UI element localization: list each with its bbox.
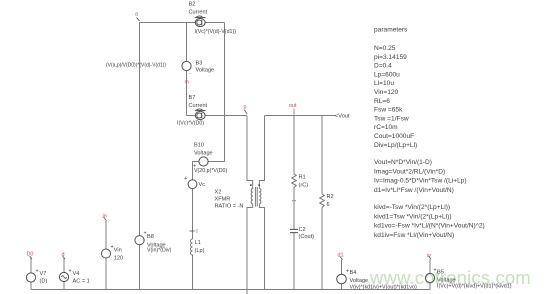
voltage source B8: [135, 236, 144, 245]
svg-text:parameters: parameters: [374, 27, 408, 34]
wire transformer secondary bottom to ground bus: [259, 204, 264, 289]
svg-text:D=0.4: D=0.4: [374, 63, 392, 70]
svg-text:Fsw =65k: Fsw =65k: [374, 107, 403, 114]
svg-text:Voltage: Voltage: [437, 278, 456, 284]
svg-text:out: out: [289, 103, 297, 109]
node iv tick: [429, 256, 432, 259]
node in tick: [104, 217, 107, 221]
wire B2 right vertical down to B10: [208, 23, 225, 162]
voltage source V7: [26, 273, 35, 282]
voltage source Vc: [188, 180, 197, 189]
svg-text:V4: V4: [73, 271, 80, 277]
wire out row to Vout label: [265, 115, 337, 117]
voltage source B4: [337, 274, 347, 284]
wire out row down to R2: [321, 116, 323, 195]
svg-text:(V(a,p)/V(D0))*(V(d)-V(d1)): (V(a,p)/V(D0))*(V(d)-V(d1)): [106, 63, 166, 69]
svg-text:d1: d1: [338, 253, 344, 259]
svg-text:(Cout): (Cout): [299, 234, 315, 240]
watermark: [370, 267, 531, 289]
svg-text:R1: R1: [299, 175, 306, 181]
wire B4 to ground bus: [341, 284, 343, 290]
svg-text:6: 6: [327, 202, 330, 208]
svg-text:AC = 1: AC = 1: [73, 279, 90, 285]
wire B3 bottom to B7 row: [186, 71, 188, 116]
svg-text:kivd1=Tsw *Vin/(2*(Lp+Ll)): kivd1=Tsw *Vin/(2*(Lp+Ll)): [374, 213, 452, 220]
svg-text:<Vout: <Vout: [335, 114, 350, 120]
svg-text:D0: D0: [27, 252, 34, 258]
svg-text:Vin=120: Vin=120: [374, 89, 399, 96]
voltage source B3: [182, 61, 191, 70]
voltage source Vin: [102, 249, 111, 258]
capacitor C2: [290, 229, 298, 232]
svg-text:Voltage: Voltage: [194, 150, 213, 156]
svg-text:Iv=Imag-0.5*D*Vin*Tsw /(Li+Lp): Iv=Imag-0.5*D*Vin*Tsw /(Li+Lp): [374, 178, 467, 185]
svg-text:+: +: [346, 269, 349, 275]
wire B3 top: [186, 23, 188, 62]
svg-text:V(iv)*(kd1iv)+V(out)*(kd1vo): V(iv)*(kd1iv)+V(out)*(kd1vo): [350, 285, 417, 291]
wire Vin to ground bus: [105, 258, 107, 290]
wire B8 bottom to ground bus: [139, 245, 141, 290]
svg-text:rC=10m: rC=10m: [374, 124, 398, 131]
parameters text block: [374, 27, 485, 239]
wire transformer secondary top to out row: [259, 116, 264, 189]
svg-text:Voltage: Voltage: [196, 68, 215, 74]
svg-text:C2: C2: [299, 227, 306, 233]
svg-text:V(20,p)*V(D0): V(20,p)*V(D0): [194, 168, 227, 174]
node c tick: [190, 230, 195, 232]
svg-text:d: d: [62, 252, 65, 258]
voltage source B10: [199, 157, 208, 166]
wire R2 to ground bus: [321, 208, 323, 290]
svg-text:-: -: [189, 71, 191, 77]
current source B7 symbol: [195, 109, 206, 120]
wire node iv to B5: [429, 259, 431, 274]
svg-text:Vin: Vin: [114, 248, 122, 254]
wire C2 to ground bus: [293, 233, 295, 289]
svg-text:+: +: [111, 245, 114, 251]
svg-text:I(Vc)*(V(d)-V(d1)): I(Vc)*(V(d)-V(d1)): [195, 29, 237, 35]
wire Vc bottom to L1: [192, 189, 194, 240]
svg-text:a: a: [135, 12, 138, 18]
svg-text:iv: iv: [427, 253, 431, 259]
svg-text:X2: X2: [215, 190, 222, 196]
svg-text:B2: B2: [189, 2, 196, 8]
svg-text:Voltage: Voltage: [350, 278, 369, 284]
svg-text:+: +: [434, 268, 437, 274]
transformer X2 core: [255, 187, 257, 207]
svg-text:I(Vc)*V(D0): I(Vc)*V(D0): [177, 120, 204, 126]
voltage source V4 (sine): [59, 272, 68, 281]
node d1 tick: [340, 257, 343, 260]
wire V7 to ground bus: [30, 282, 32, 290]
svg-text:Vc: Vc: [199, 182, 206, 188]
wire node a vertical down to B8: [139, 23, 141, 237]
wire B7 row to node p: [187, 115, 248, 117]
node d tick: [63, 256, 66, 259]
wire node d1 to B4: [341, 260, 343, 275]
wire L1 bottom to ground bus: [192, 255, 194, 290]
svg-text:Vout=N*D*Vin/(1-D): Vout=N*D*Vin/(1-D): [374, 159, 432, 166]
svg-text:B5: B5: [437, 270, 444, 276]
svg-text:Ll=10u: Ll=10u: [374, 80, 394, 87]
wire out row down to R1: [293, 116, 295, 175]
node between R1 and C2 tick: [292, 200, 296, 202]
svg-text:B4: B4: [350, 270, 357, 276]
svg-text:m: m: [185, 80, 190, 86]
svg-text:Tsw =1/Fsw: Tsw =1/Fsw: [374, 115, 409, 122]
svg-text:+: +: [184, 176, 187, 182]
svg-text:RL=6: RL=6: [374, 98, 390, 105]
node a tick: [137, 18, 140, 22]
svg-text:d1=Iv*Ll*Fsw /(Vin+Vout/N): d1=Iv*Ll*Fsw /(Vin+Vout/N): [374, 187, 454, 194]
svg-text:pi=3.14159: pi=3.14159: [374, 54, 407, 61]
svg-text:(Lp): (Lp): [195, 248, 205, 254]
current source B2 symbol: [195, 16, 206, 27]
inductor L1: [191, 239, 193, 255]
svg-text:XFMR: XFMR: [215, 197, 231, 203]
resistor R2: [320, 194, 324, 208]
svg-text:+: +: [69, 269, 72, 275]
svg-text:120: 120: [114, 255, 123, 261]
svg-text:B7: B7: [189, 95, 196, 101]
svg-text:+: +: [36, 269, 39, 275]
svg-text:B3: B3: [196, 61, 203, 67]
transformer X2 windings: [251, 188, 261, 204]
wire transformer primary stub below bus: [246, 289, 248, 294]
svg-text:in: in: [103, 214, 107, 220]
node out tick: [293, 109, 295, 116]
svg-text:kd1vo=-Fsw *Iv*Ll/(N*(Vin+Vout: kd1vo=-Fsw *Iv*Ll/(N*(Vin+Vout/N)^2): [374, 223, 485, 230]
wire R1 to C2: [293, 188, 295, 230]
svg-text:Imag=Vout*2/RL/(Vin*D): Imag=Vout*2/RL/(Vin*D): [374, 168, 445, 175]
svg-text:V7: V7: [40, 271, 47, 277]
wire node p down to transformer primary: [247, 116, 253, 189]
svg-text:(rC): (rC): [299, 182, 309, 188]
svg-text:Current: Current: [189, 103, 208, 109]
svg-text:kd1iv=Fsw *Ll/(Vin+Vout/N): kd1iv=Fsw *Ll/(Vin+Vout/N): [374, 232, 454, 239]
svg-text:Current: Current: [189, 9, 208, 15]
svg-text:R2: R2: [327, 194, 334, 200]
svg-text:I(Vc)+V(d)*(kivd)+V(d1)*(kivd1: I(Vc)+V(d)*(kivd)+V(d1)*(kivd1): [437, 284, 512, 290]
wire top bus a to B2 right corner: [139, 22, 225, 24]
wire V4 to ground bus: [63, 282, 65, 290]
node p tick: [245, 110, 248, 114]
wire node d to V4: [63, 258, 65, 273]
svg-text:Lp=600u: Lp=600u: [374, 71, 400, 78]
svg-text:Cout=1000uF: Cout=1000uF: [374, 133, 414, 140]
svg-text:B8: B8: [147, 234, 154, 240]
node D0 tick: [30, 256, 33, 259]
wire B5 to ground bus: [429, 283, 431, 290]
svg-text:(D): (D): [40, 279, 48, 285]
svg-text:N=0.25: N=0.25: [374, 45, 396, 52]
svg-text:V(in)*(Div): V(in)*(Div): [147, 247, 172, 253]
svg-text:+: +: [144, 231, 147, 237]
svg-text:c: c: [196, 229, 199, 235]
voltage source B5: [425, 273, 434, 282]
wire transformer primary bottom to ground bus: [247, 204, 253, 289]
resistor R1: [292, 174, 296, 188]
svg-text:B10: B10: [194, 143, 204, 149]
transformer polarity dots: [250, 184, 260, 186]
svg-text:RATIO = -N: RATIO = -N: [215, 204, 244, 210]
wire node in to Vin: [105, 221, 107, 250]
svg-text:Div=Lp/(Lp+Ll): Div=Lp/(Lp+Ll): [374, 142, 417, 149]
wire B10 left to Vc: [193, 162, 200, 181]
wire node D0 to V7: [30, 258, 32, 274]
svg-text:p: p: [244, 105, 247, 111]
svg-text:kivd=-Tsw *Vin/(2*(Lp+Ll)): kivd=-Tsw *Vin/(2*(Lp+Ll)): [374, 204, 450, 211]
ground bus: [31, 289, 431, 291]
svg-text:L1: L1: [195, 240, 201, 246]
